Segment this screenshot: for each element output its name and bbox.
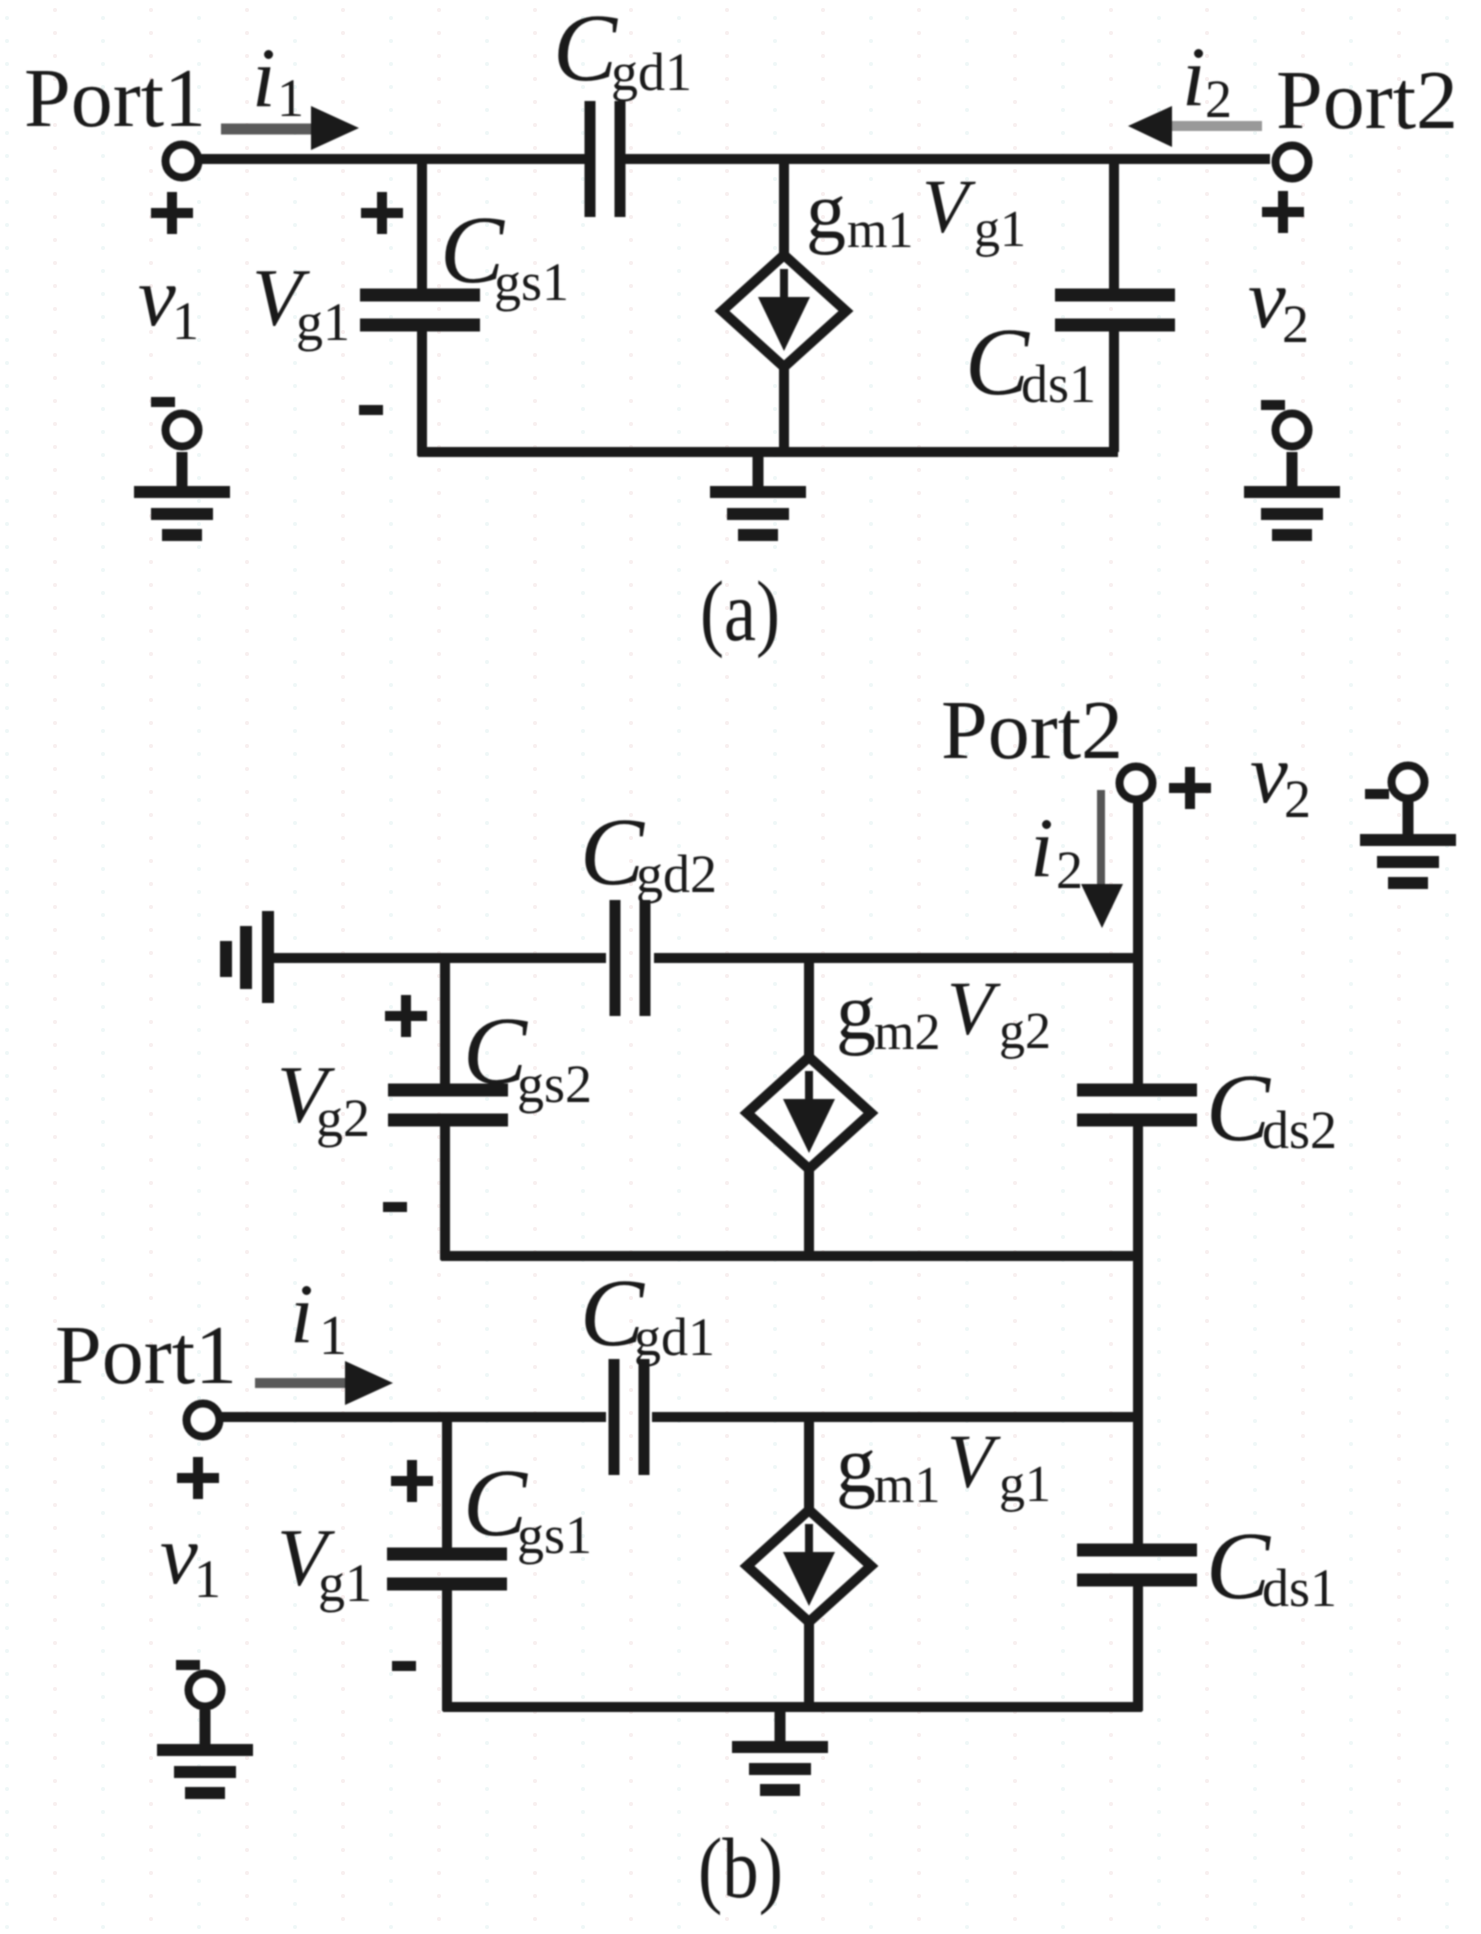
svg-text:v: v [160,1508,198,1602]
svg-text:i: i [252,31,276,125]
svg-text:2: 2 [1056,840,1083,900]
svg-text:1: 1 [194,1549,221,1609]
svg-text:g2: g2 [316,1088,370,1148]
svg-text:v: v [1248,252,1286,346]
svg-text:gs1: gs1 [494,252,569,312]
svg-text:gd1: gd1 [611,42,692,102]
svg-text:m2: m2 [874,1004,940,1061]
svg-text:i: i [290,1267,314,1361]
svg-text:1: 1 [172,291,199,351]
svg-text:m1: m1 [847,202,913,259]
svg-text:g2: g2 [999,1003,1051,1060]
svg-text:(b): (b) [698,1820,783,1916]
svg-text:gd1: gd1 [634,1307,715,1367]
svg-text:ds1: ds1 [1262,1558,1337,1618]
svg-text:g1: g1 [974,201,1026,258]
svg-text:C: C [553,0,618,101]
svg-text:Port1: Port1 [55,1309,237,1402]
svg-text:m1: m1 [874,1457,940,1514]
svg-text:v: v [1250,727,1288,821]
svg-text:g1: g1 [296,292,350,352]
svg-text:Port2: Port2 [1276,54,1458,147]
svg-text:gs1: gs1 [517,1505,592,1565]
svg-text:ds1: ds1 [1021,354,1096,414]
svg-text:ds2: ds2 [1262,1100,1337,1160]
svg-text:i: i [1182,30,1206,124]
svg-text:V: V [922,165,976,249]
svg-text:1: 1 [277,68,304,128]
svg-text:v: v [138,250,176,344]
svg-text:Port1: Port1 [24,52,206,145]
svg-text:g: g [836,969,876,1057]
svg-text:g1: g1 [999,1456,1051,1513]
svg-text:2: 2 [1205,69,1232,129]
svg-text:V: V [947,967,1001,1051]
svg-text:Port2: Port2 [941,684,1123,777]
svg-text:(a): (a) [700,563,780,659]
svg-text:i: i [1030,801,1054,895]
svg-text:2: 2 [1282,294,1309,354]
svg-text:V: V [947,1420,1001,1504]
svg-text:2: 2 [1284,769,1311,829]
svg-text:g: g [806,168,846,256]
svg-text:g: g [836,1422,876,1510]
svg-text:g1: g1 [318,1553,372,1613]
svg-text:1: 1 [319,1305,347,1367]
svg-text:gd2: gd2 [636,844,717,904]
svg-text:gs2: gs2 [517,1054,592,1114]
